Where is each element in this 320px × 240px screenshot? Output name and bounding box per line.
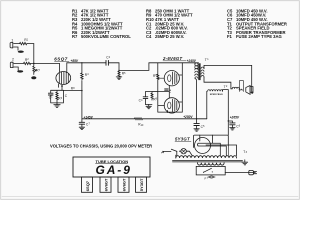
svg-text:7: 7 [89, 124, 91, 126]
svg-text:1: 1 [51, 97, 53, 99]
tube V2 6V6GT (upper) [162, 56, 186, 86]
svg-text:SPKR FIELD: SPKR FIELD [210, 94, 223, 96]
transformer T3 power [173, 150, 248, 165]
resistor R6 in grid bus [153, 74, 159, 80]
power switch S1 [164, 149, 178, 152]
svg-text:3: 3 [246, 151, 248, 154]
svg-text:6V6GT: 6V6GT [104, 178, 109, 191]
humbucking coil bumps [232, 87, 239, 89]
wire to AC plug [225, 172, 255, 174]
secondary bumps right [201, 67, 204, 77]
cathode line 6SQ7 with R8 label [63, 87, 82, 92]
svg-text:6SQ7: 6SQ7 [54, 57, 68, 62]
parts list column 1 [72, 8, 131, 39]
svg-text:2: 2 [12, 58, 14, 62]
svg-text:1: 1 [207, 58, 209, 61]
svg-text:FUSE 2AMP TYPE 3AG: FUSE 2AMP TYPE 3AG [236, 34, 282, 39]
ground below C4/R9 [146, 105, 153, 109]
voice coil former [239, 81, 243, 92]
svg-text:6SQ7: 6SQ7 [85, 180, 90, 191]
tube V1 6SQ7 [54, 57, 70, 85]
svg-text:6: 6 [239, 126, 241, 128]
border frame [1, 1, 300, 200]
socket 6SQ7 [82, 177, 93, 192]
wire: junction to 6SQ7 grid [34, 63, 60, 72]
svg-text:10: 10 [141, 125, 144, 127]
input jack J1 [10, 38, 19, 50]
svg-text:6V6GT: 6V6GT [122, 178, 127, 191]
svg-text:1: 1 [11, 38, 13, 42]
tube V4 5Y3GT rectifier [175, 135, 237, 156]
socket 6V6GT b [118, 177, 129, 192]
6SQ7 cathode network box [48, 84, 67, 107]
wire: C2 to corner down [118, 63, 120, 71]
svg-text:+250V: +250V [183, 115, 193, 119]
wire: T1 primary bottom down to +250V bus [195, 78, 196, 118]
capacitor C1 [48, 92, 53, 94]
wire: grid tap to upper 6V6 [158, 77, 165, 79]
svg-text:3: 3 [170, 90, 172, 92]
wire: 6SQ7 plate up to +85V line [66, 63, 68, 73]
capacitor C4 [139, 92, 148, 105]
svg-text:5Y3GT: 5Y3GT [139, 178, 144, 191]
socket 6V6GT a [100, 177, 111, 192]
secondary winding bumps [198, 163, 225, 165]
svg-text:9: 9 [156, 99, 158, 101]
primary winding bumps [176, 156, 237, 158]
ground at J1 [18, 51, 24, 53]
svg-text:1: 1 [27, 39, 29, 41]
wires: switch/lamp to transformer primary [177, 151, 193, 156]
svg-text:7: 7 [39, 70, 41, 72]
filament fork [198, 143, 227, 155]
capacitor C6 [228, 120, 241, 130]
ground below R5 [116, 77, 122, 79]
fuse F1 [205, 176, 216, 181]
wire from R1 down to input junction [33, 44, 35, 64]
resistor R9 (cathode) [151, 92, 158, 102]
svg-text:5: 5 [124, 73, 126, 75]
resistor R5 [118, 70, 126, 77]
plate verticals into tube [200, 135, 213, 143]
svg-text:4: 4 [141, 100, 143, 102]
svg-text:2: 2 [109, 57, 111, 59]
svg-text:1: 1 [207, 178, 209, 180]
svg-text:500KVOLUME CONTROL: 500KVOLUME CONTROL [81, 34, 131, 39]
ground near T3 [242, 160, 248, 165]
svg-text:8: 8 [73, 88, 75, 90]
svg-text:R7: R7 [72, 34, 78, 39]
wire: plate line to C2 [67, 62, 106, 64]
parts list column 2 [146, 8, 193, 39]
svg-text:+265V: +265V [230, 115, 240, 119]
resistor R1 [20, 38, 34, 45]
ground below network [54, 103, 60, 107]
capacitor C5 [194, 118, 205, 131]
core lines [173, 160, 243, 162]
wire: coupling to 6V6 grids [119, 63, 199, 74]
svg-text:2: 2 [27, 59, 29, 61]
loop wiring over tube [194, 135, 229, 147]
wire: T1 secondary top to speaker [204, 65, 252, 91]
speaker SP [246, 86, 253, 95]
resistor R3 (cathode) [56, 92, 58, 100]
svg-text:4: 4 [87, 74, 89, 76]
socket 5Y3GT [136, 177, 147, 192]
svg-text:25MFD 25 W.V.: 25MFD 25 W.V. [155, 34, 184, 39]
svg-text:3: 3 [61, 98, 63, 100]
capacitor C2 [106, 56, 119, 66]
volume control R7 [33, 63, 41, 74]
svg-text:VOLTAGES TO CHASSIS, USING 20,: VOLTAGES TO CHASSIS, USING 20,000 OPV ME… [50, 144, 152, 149]
tube V3 6V6GT (lower) [164, 98, 179, 113]
svg-text:F1: F1 [227, 34, 233, 39]
B+ bus (+145V / +250V) [82, 115, 207, 127]
input jack J2 [10, 58, 23, 71]
svg-text:C: C [65, 94, 68, 98]
filament tail to winding [206, 145, 237, 156]
ground blob below R7 [31, 76, 36, 79]
AC plug P1 [249, 170, 257, 174]
field coil T2 [207, 85, 229, 135]
label C3 between 6V6s [165, 89, 169, 90]
resistor R10 in bus [135, 118, 143, 120]
capacitor C7 [79, 119, 90, 130]
tube location chassis [73, 157, 150, 177]
svg-text:5Y3GT: 5Y3GT [175, 137, 190, 142]
svg-text:C4: C4 [146, 34, 152, 39]
wire: 6V6 plate bus [158, 63, 183, 112]
chassis arrow [161, 151, 164, 153]
resistor R2 [24, 58, 34, 65]
transformer T1 output [195, 58, 210, 80]
parts list column 3 [227, 8, 287, 39]
svg-text:GA-9: GA-9 [96, 163, 132, 177]
node: input junction [33, 63, 35, 65]
wire: 6V6 cathodes to bias network [146, 86, 170, 98]
svg-text:+245V: +245V [187, 59, 197, 63]
primary bumps left [195, 63, 198, 79]
node: R5 junction [118, 70, 119, 71]
svg-text:2: 2 [226, 86, 228, 88]
resistor R4 (plate load) [81, 62, 89, 119]
wire: T1 secondary bottom to voice coil [204, 77, 232, 89]
svg-text:5: 5 [203, 126, 205, 128]
ground at J2 [17, 70, 23, 72]
wire: grid bus down to lower 6V6 grid [158, 80, 165, 113]
pilot lamp [181, 149, 186, 154]
svg-text:2-6V6GT: 2-6V6GT [162, 56, 182, 61]
primary circuit box [196, 166, 225, 175]
